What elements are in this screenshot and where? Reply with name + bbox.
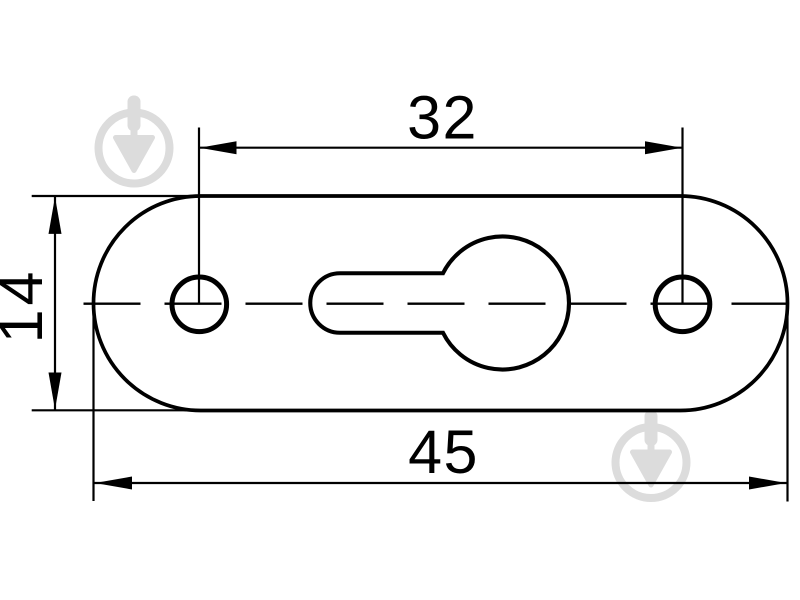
- extension line bottom (14 dim): [32, 409, 203, 411]
- right screw hole: [655, 277, 710, 332]
- extension line left (45 dim): [92, 306, 94, 501]
- dimension line 32: [199, 147, 683, 149]
- extension line right (45 dim): [786, 306, 788, 502]
- dimension line 14: [54, 196, 56, 410]
- plate outline (stadium): [94, 196, 788, 411]
- svg-text:32: 32: [407, 83, 478, 151]
- horizontal centerline: [84, 303, 789, 305]
- arrowhead 32 left: [200, 141, 237, 154]
- svg-text:45: 45: [408, 418, 479, 486]
- extension line top (14 dim): [32, 195, 197, 197]
- arrowhead 32 right: [645, 141, 682, 154]
- watermark logo bottom-right: [616, 410, 687, 498]
- arrowhead 14 up: [49, 197, 62, 234]
- watermark logo top-left: [99, 96, 170, 184]
- extension line left (32 dim): [198, 128, 200, 305]
- arrowhead 45 left: [95, 477, 132, 490]
- left screw hole: [172, 277, 227, 332]
- svg-text:14: 14: [0, 268, 55, 344]
- arrowhead 45 right: [749, 477, 786, 490]
- arrowhead 14 down: [49, 373, 62, 410]
- extension line right (32 dim): [681, 128, 683, 305]
- dimension line 45: [95, 482, 787, 484]
- keyhole slot: [310, 237, 569, 370]
